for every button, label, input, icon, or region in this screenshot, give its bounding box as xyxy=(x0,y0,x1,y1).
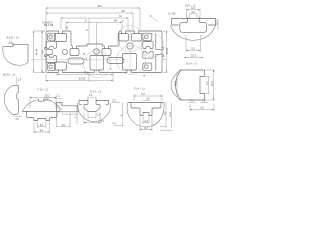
svg-text:Z: Z xyxy=(86,28,88,32)
svg-text:8.2: 8.2 xyxy=(164,111,167,115)
svg-text:9.2: 9.2 xyxy=(200,106,204,110)
svg-text:8.2: 8.2 xyxy=(40,123,44,127)
svg-text:10.2: 10.2 xyxy=(215,19,219,25)
svg-text:40.5: 40.5 xyxy=(174,80,178,86)
svg-text:2 x 45°: 2 x 45° xyxy=(168,12,176,16)
svg-text:9.2: 9.2 xyxy=(144,126,148,130)
svg-text:C (4 : 1): C (4 : 1) xyxy=(37,88,48,92)
svg-text:60.95: 60.95 xyxy=(79,76,86,80)
svg-text:E: E xyxy=(85,58,88,62)
svg-text:4.4: 4.4 xyxy=(144,119,148,123)
svg-text:2.05: 2.05 xyxy=(44,98,49,101)
svg-text:D (4 : 1): D (4 : 1) xyxy=(89,90,101,94)
svg-text:Ø4.2 M5: Ø4.2 M5 xyxy=(44,24,54,27)
svg-text:4.2: 4.2 xyxy=(205,81,209,85)
svg-text:40: 40 xyxy=(40,50,44,54)
svg-text:A: A xyxy=(142,74,145,78)
svg-text:2.5: 2.5 xyxy=(112,99,116,103)
svg-text:D (4 : 1): D (4 : 1) xyxy=(185,62,197,66)
svg-text:9.2: 9.2 xyxy=(141,92,145,96)
svg-text:40.45: 40.45 xyxy=(35,48,38,55)
svg-text:43.1: 43.1 xyxy=(83,70,89,74)
svg-text:14.2: 14.2 xyxy=(169,112,172,117)
svg-text:16.2: 16.2 xyxy=(191,54,197,58)
svg-text:F (4 : 1): F (4 : 1) xyxy=(133,87,144,91)
svg-text:5.2: 5.2 xyxy=(191,47,195,51)
svg-text:40.45: 40.45 xyxy=(166,47,169,54)
svg-text:F: F xyxy=(121,19,124,23)
svg-text:4.4: 4.4 xyxy=(191,10,195,14)
svg-text:8.4: 8.4 xyxy=(40,128,44,132)
svg-text:10.4: 10.4 xyxy=(210,80,214,86)
svg-text:4.2: 4.2 xyxy=(202,99,206,103)
svg-text:9.2: 9.2 xyxy=(191,6,195,10)
svg-text:96.1: 96.1 xyxy=(97,4,103,8)
svg-text:B: B xyxy=(66,26,68,30)
svg-text:4.5: 4.5 xyxy=(190,99,194,103)
svg-text:A (10 : 1): A (10 : 1) xyxy=(6,36,19,40)
svg-text:B (10 : 1): B (10 : 1) xyxy=(3,73,15,77)
